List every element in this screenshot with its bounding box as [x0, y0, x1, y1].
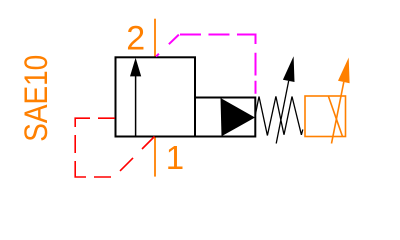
spring	[255, 96, 303, 135]
adjuster arrow head	[338, 58, 350, 84]
spring adjust arrow head	[283, 56, 295, 82]
port 2 line	[154, 19, 156, 58]
adjuster diagonal	[329, 97, 343, 137]
flow arrow shaft	[135, 76, 137, 137]
adjuster box	[305, 96, 346, 137]
drain line (red dashed)	[75, 118, 154, 177]
svg-text:1: 1	[166, 139, 184, 176]
svg-text:SAE10: SAE10	[18, 55, 54, 142]
check valve triangle	[221, 98, 256, 136]
valve body box	[116, 57, 196, 136]
spring adjust arrow shaft	[276, 81, 289, 144]
check valve box	[195, 98, 255, 137]
label SAE10	[18, 55, 54, 142]
svg-text:2: 2	[126, 20, 145, 58]
adjuster arrow shaft	[332, 82, 344, 144]
pilot line (magenta dashed)	[156, 35, 256, 57]
port 1 line	[154, 137, 156, 177]
pilot line vertical (magenta dashed)	[255, 53, 257, 97]
flow arrow head	[130, 58, 141, 77]
